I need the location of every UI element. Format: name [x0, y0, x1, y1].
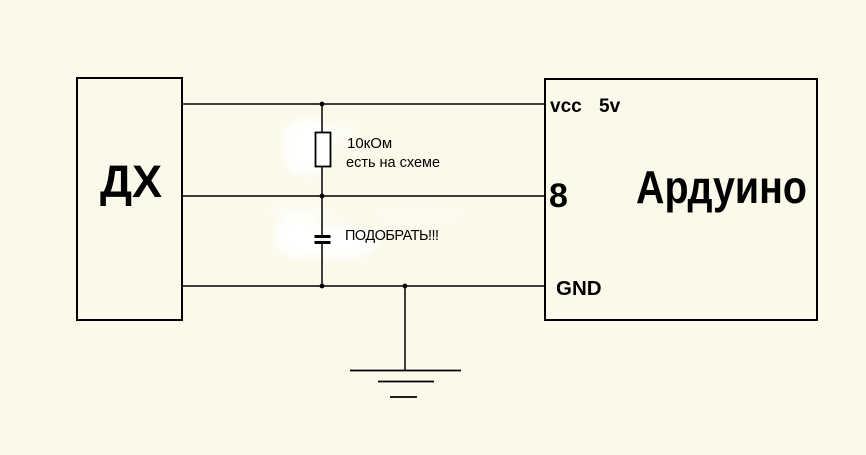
svg-text:ПОДОБРАТЬ!!!: ПОДОБРАТЬ!!! — [345, 228, 439, 244]
svg-text:10кОм: 10кОм — [347, 135, 392, 152]
svg-text:8: 8 — [549, 177, 568, 215]
svg-text:5v: 5v — [599, 96, 621, 117]
svg-text:ДХ: ДХ — [100, 156, 162, 207]
svg-text:Ардуино: Ардуино — [636, 161, 807, 213]
svg-text:есть на схеме: есть на схеме — [346, 155, 440, 171]
svg-text:vcc: vcc — [550, 96, 582, 117]
svg-text:GND: GND — [556, 277, 602, 300]
